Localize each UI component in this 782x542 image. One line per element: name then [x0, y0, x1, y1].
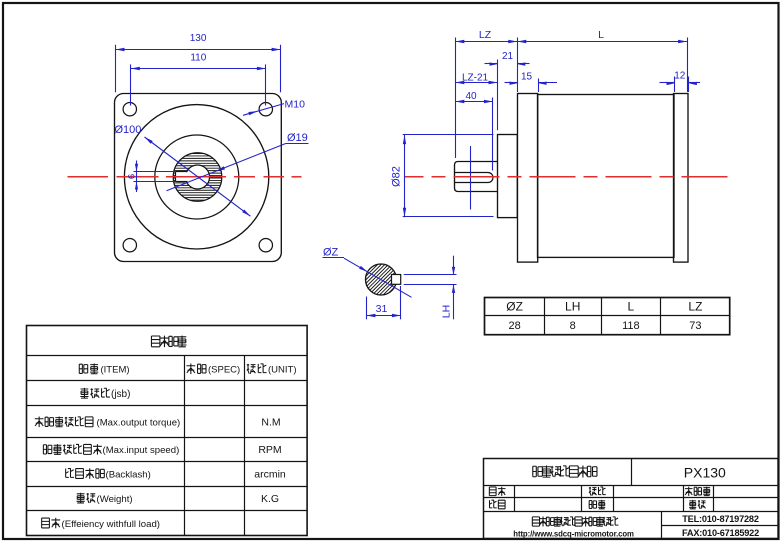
- dimension 6 keyway width: [127, 161, 177, 193]
- performance parameter table grid: [27, 326, 308, 536]
- bolt hole bottom-left: [123, 239, 136, 252]
- row header 数值 (SPEC): [186, 364, 240, 376]
- label 日期: [490, 500, 506, 509]
- svg-text:M10: M10: [285, 99, 306, 111]
- company 北京时代超群电器有限公司: [532, 517, 618, 527]
- inner step circle: [155, 135, 239, 219]
- dimension Ø82: [391, 135, 494, 218]
- svg-text:21: 21: [502, 51, 514, 62]
- row 效率(Effeiency withfull load): [42, 518, 160, 530]
- dimension LZ-21: [455, 73, 497, 85]
- dimension LH key height: [404, 256, 457, 320]
- bolt hole top-right M10: [259, 103, 272, 116]
- svg-text:15: 15: [521, 72, 533, 83]
- bolt hole top-left: [123, 103, 136, 116]
- svg-text:ØZ: ØZ: [506, 300, 523, 314]
- svg-text:N.M: N.M: [261, 417, 280, 429]
- svg-text:Ø82: Ø82: [391, 166, 403, 187]
- svg-text:arcmin: arcmin: [254, 468, 286, 480]
- row 减速比(jsb): [80, 388, 130, 400]
- svg-text:31: 31: [376, 303, 388, 315]
- svg-text:LZ: LZ: [479, 29, 492, 41]
- svg-text:73: 73: [689, 320, 701, 332]
- svg-text:K.G: K.G: [261, 493, 279, 505]
- svg-text:(UNIT): (UNIT): [268, 364, 297, 375]
- shaft keyway profile: [455, 173, 494, 183]
- svg-text:6: 6: [127, 174, 138, 179]
- row header 项目 (ITEM): [79, 364, 129, 376]
- keyway slot front view: [176, 171, 190, 182]
- svg-text:(ITEM): (ITEM): [101, 364, 130, 375]
- side view gearbox body: [538, 95, 675, 258]
- dimension 15 flange thickness: [505, 72, 558, 93]
- svg-text:130: 130: [190, 33, 207, 44]
- svg-text:LZ-21: LZ-21: [462, 73, 489, 84]
- dimension L: [517, 29, 687, 43]
- svg-text:TEL:010-87197282: TEL:010-87197282: [682, 514, 759, 524]
- shaft key detail: [392, 275, 401, 285]
- shaft hub hatched section: [172, 153, 223, 202]
- title block grid: [484, 459, 779, 540]
- svg-text:Ø19: Ø19: [287, 132, 308, 144]
- svg-text:LZ: LZ: [688, 300, 702, 314]
- svg-text:L: L: [598, 29, 604, 41]
- svg-text:8: 8: [570, 320, 576, 332]
- leader M10: [243, 99, 305, 116]
- svg-text:RPM: RPM: [258, 444, 281, 456]
- extension lines LZ / L: [456, 38, 688, 159]
- front view flange square: [115, 94, 282, 262]
- svg-text:(SPEC): (SPEC): [208, 364, 240, 375]
- svg-text:FAX:010-67185922: FAX:010-67185922: [682, 528, 759, 538]
- svg-text:ØZ: ØZ: [323, 247, 339, 259]
- row 回程间隙(Backlash): [66, 468, 151, 480]
- svg-text:PX130: PX130: [684, 465, 726, 481]
- svg-text:http://www.sdcq-micromotor.com: http://www.sdcq-micromotor.com: [513, 530, 634, 539]
- table title 性能参数: [151, 336, 186, 348]
- dimension 31: [366, 286, 401, 319]
- front view horizontal centerline: [68, 176, 302, 178]
- svg-text:(Max.output torque): (Max.output torque): [97, 418, 181, 429]
- svg-text:LH: LH: [565, 300, 580, 314]
- svg-text:118: 118: [622, 320, 640, 332]
- label 审阅: [689, 500, 705, 509]
- label 备注: [589, 500, 605, 509]
- svg-text:(Max.input speed): (Max.input speed): [103, 445, 180, 456]
- side view rear cap: [674, 94, 689, 263]
- svg-text:(Weight): (Weight): [97, 494, 133, 505]
- side view horizontal centerline: [405, 176, 728, 178]
- shaft section detail circle: [325, 264, 436, 296]
- dimension LZ: [455, 29, 517, 43]
- svg-text:28: 28: [508, 320, 520, 332]
- svg-text:12: 12: [674, 70, 686, 81]
- side view input adapter block: [498, 135, 518, 218]
- title 精密行星减速器: [533, 466, 597, 478]
- svg-text:L: L: [628, 300, 635, 314]
- pilot boss circle: [124, 105, 268, 249]
- dimension 130: [116, 33, 281, 92]
- dimension 110: [131, 53, 266, 106]
- svg-text:(Backlash): (Backlash): [106, 469, 151, 480]
- svg-text:(Effeiency withfull load): (Effeiency withfull load): [62, 519, 160, 530]
- label 版本: [489, 487, 505, 496]
- svg-text:40: 40: [465, 91, 477, 102]
- row 最大输出转矩 (Max.output torque): [35, 417, 180, 429]
- label 设计者: [685, 487, 710, 496]
- row 重量(Weight): [77, 493, 133, 505]
- side view output shaft: [455, 162, 498, 192]
- dimension 40 keyway length: [455, 91, 493, 171]
- leader dimension ØZ: [323, 247, 412, 298]
- row header 单位 (UNIT): [247, 364, 297, 376]
- dimension 21: [485, 51, 530, 130]
- dimension value table: [485, 297, 731, 335]
- leader dimension Ø19: [167, 132, 309, 191]
- side view flange plate: [518, 94, 538, 263]
- row 最大输入转速(Max.input speed): [43, 444, 179, 456]
- leader dimension Ø100: [115, 124, 251, 216]
- dimension 12 cap thickness: [660, 70, 701, 92]
- bolt hole bottom-right: [259, 239, 272, 252]
- svg-text:110: 110: [190, 53, 206, 64]
- label 比例: [589, 487, 606, 496]
- svg-text:LH: LH: [441, 305, 453, 318]
- svg-text:(jsb): (jsb): [111, 389, 130, 400]
- svg-text:Ø100: Ø100: [115, 124, 142, 136]
- keyway section centerline (blue): [470, 146, 472, 210]
